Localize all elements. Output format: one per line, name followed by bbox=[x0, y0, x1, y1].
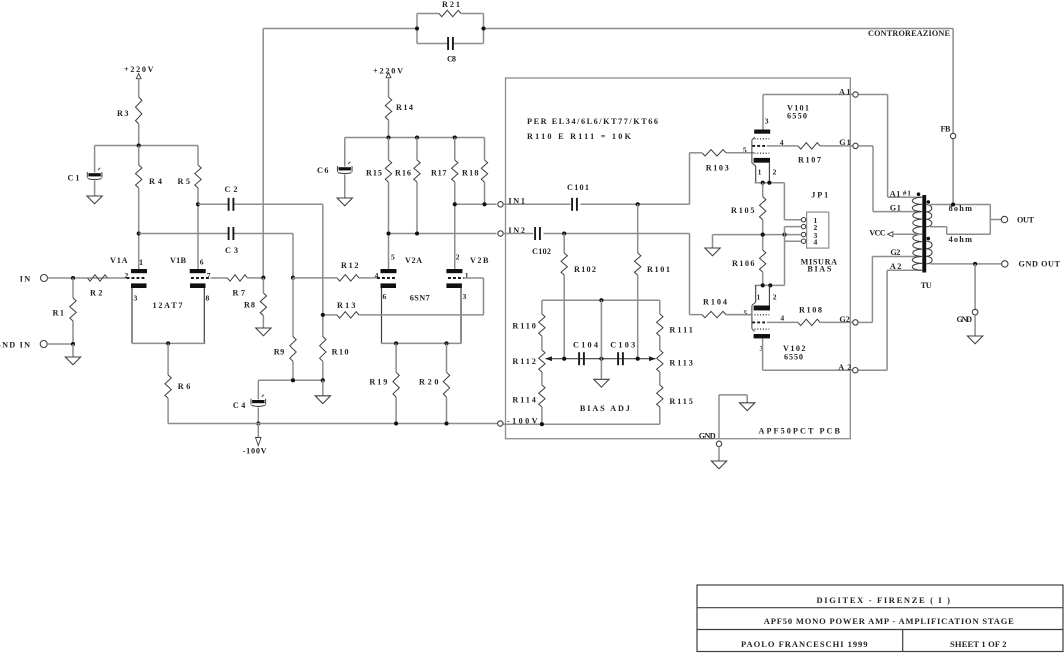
node R1 top junction bbox=[71, 276, 75, 280]
resistor R4 bbox=[138, 146, 140, 166]
PCB outline APF50PCT bbox=[506, 78, 851, 439]
resistor R8 bbox=[262, 278, 264, 293]
ground below GND OUT bbox=[967, 336, 982, 344]
terminal A1 bbox=[853, 92, 858, 97]
svg-text:6: 6 bbox=[200, 258, 204, 267]
wire IN2 inside to C102 bbox=[503, 233, 533, 235]
node IN2/R16 bbox=[415, 231, 419, 235]
capacitor C3 bbox=[228, 227, 230, 240]
node R5/C2 junction bbox=[196, 202, 200, 206]
svg-text:7: 7 bbox=[207, 271, 211, 280]
svg-text:GND: GND bbox=[957, 315, 973, 324]
node GND IN junction bbox=[71, 342, 75, 346]
node V101 cathode pin1 bbox=[761, 181, 765, 185]
JP1 pin 1 bbox=[801, 218, 805, 222]
svg-text:R6: R6 bbox=[178, 382, 191, 391]
node R4/C3 junction bbox=[137, 231, 141, 235]
wire C4 to -100V bus bbox=[257, 407, 259, 423]
terminal OUT bbox=[1001, 216, 1007, 222]
svg-text:GND: GND bbox=[699, 432, 716, 441]
svg-text:5: 5 bbox=[743, 309, 747, 318]
node IN1/R17 bbox=[453, 202, 457, 206]
svg-text:R1: R1 bbox=[53, 309, 65, 318]
svg-text:R5: R5 bbox=[178, 177, 191, 186]
resistor R104 bbox=[702, 311, 726, 317]
wire V1 cathode bracket bbox=[132, 342, 205, 344]
svg-text:4: 4 bbox=[375, 271, 379, 280]
terminal IN bbox=[41, 275, 48, 282]
wire JP1 pin1 to cathode bbox=[783, 183, 785, 220]
tube V101 suppressor grid bbox=[755, 152, 770, 154]
capacitor C103 bbox=[617, 352, 619, 365]
node R19 bottom bbox=[394, 421, 398, 425]
wire JP1 pin3 row bbox=[713, 234, 802, 236]
wire IN1 net bbox=[455, 203, 497, 205]
arrow into R113 bbox=[649, 356, 656, 361]
ground below GND IN bbox=[72, 344, 74, 357]
wire V101 grid to R107 bbox=[767, 145, 798, 147]
resistor R20 bbox=[446, 343, 448, 372]
svg-text:R106: R106 bbox=[732, 259, 755, 268]
svg-text:V2B: V2B bbox=[470, 256, 489, 265]
wire C102 to R104 corner bbox=[544, 233, 690, 235]
svg-text:R101: R101 bbox=[647, 265, 670, 274]
wire 6SN7 plate bus bbox=[345, 137, 485, 139]
wire GND to ground symbol bbox=[974, 315, 976, 336]
node IN1/R18 bbox=[482, 202, 486, 206]
terminal GND IN bbox=[40, 341, 47, 348]
phase mark secondary top bbox=[927, 200, 931, 204]
svg-text:2: 2 bbox=[773, 293, 777, 302]
resistor R6 bbox=[167, 343, 169, 375]
resistor R5 bbox=[197, 146, 199, 166]
svg-text:A1: A1 bbox=[839, 87, 851, 96]
node R101 top bbox=[636, 202, 640, 206]
svg-text:R16: R16 bbox=[395, 169, 411, 178]
resistor R101 bbox=[637, 204, 639, 253]
VCC arrow bbox=[888, 232, 893, 237]
svg-text:R20: R20 bbox=[419, 378, 439, 387]
node pin3/vertical junction bbox=[782, 233, 786, 237]
wire G2 to transformer bbox=[859, 321, 873, 323]
resistor R106 bbox=[762, 235, 764, 250]
svg-text:3: 3 bbox=[765, 117, 769, 126]
capacitor C102 bbox=[534, 227, 536, 240]
svg-text:C2: C2 bbox=[225, 185, 238, 194]
wire +220V node horizontal bbox=[95, 145, 198, 147]
capacitor C104 bbox=[578, 352, 580, 365]
svg-text:4: 4 bbox=[780, 314, 784, 323]
wire C2 output vertical bbox=[322, 204, 324, 315]
JP1 pin 2 bbox=[801, 224, 805, 228]
wire V101 suppressor to R103 bbox=[726, 152, 752, 154]
svg-text:V1B: V1B bbox=[170, 256, 187, 265]
resistor R2 bbox=[88, 275, 108, 281]
svg-text:R2: R2 bbox=[90, 289, 103, 298]
wire R6 to -100V bus bbox=[167, 398, 169, 423]
node V101 cathode pin2 bbox=[767, 181, 771, 185]
resistor R114 bbox=[541, 372, 543, 385]
svg-text:R12: R12 bbox=[341, 261, 359, 270]
wire GND OUT bbox=[930, 263, 1001, 265]
resistor R17 bbox=[454, 138, 456, 161]
wire V101 cathode tie bar bbox=[755, 182, 785, 184]
wire bus to C6 bbox=[344, 138, 346, 167]
node bus/R15 bbox=[386, 135, 390, 139]
trimmer R112 bbox=[539, 350, 545, 372]
svg-text:R111: R111 bbox=[669, 326, 693, 335]
wire bias centre vertical bbox=[600, 300, 602, 358]
terminal IN1 out bbox=[498, 202, 503, 207]
wire GND drop bbox=[974, 264, 976, 309]
svg-text:R13: R13 bbox=[337, 301, 356, 310]
wire R7 to feedback node bbox=[248, 277, 264, 279]
node R19 top bbox=[394, 341, 398, 345]
svg-text:R7: R7 bbox=[233, 289, 246, 298]
terminal GND mid bbox=[972, 309, 978, 315]
ground below wiper centre bbox=[600, 359, 602, 380]
svg-text:R4: R4 bbox=[149, 177, 162, 186]
svg-text:4: 4 bbox=[814, 237, 818, 246]
svg-text:3: 3 bbox=[463, 292, 467, 301]
svg-text:CONTROREAZIONE: CONTROREAZIONE bbox=[868, 29, 951, 38]
wire V102 cathode tie bar bbox=[755, 284, 785, 286]
wire ground bus under R9/R10 bbox=[258, 379, 323, 381]
wire to C1 bbox=[94, 146, 96, 173]
resistor R14 bbox=[385, 97, 391, 120]
ground below C1 bbox=[87, 196, 102, 204]
node R102 top bbox=[562, 231, 566, 235]
svg-text:R107: R107 bbox=[798, 156, 821, 165]
wire V102 plate to A2 bbox=[762, 338, 764, 370]
wire C101 to R103 corner bbox=[581, 203, 690, 205]
transformer secondary upper winding bbox=[926, 205, 931, 227]
svg-text:R112: R112 bbox=[512, 357, 536, 366]
svg-text:R108: R108 bbox=[799, 305, 822, 314]
svg-text:2: 2 bbox=[125, 271, 129, 280]
resistor R111 bbox=[659, 300, 661, 314]
wire V102 suppressor to R104 bbox=[726, 314, 752, 316]
JP1 pin 4 bbox=[801, 239, 805, 243]
wire IN2 net bbox=[389, 233, 497, 235]
capacitor C8 bbox=[417, 43, 448, 45]
wire -100V bus left section bbox=[168, 423, 500, 425]
node feedback tap bbox=[951, 202, 955, 206]
resistor R12 bbox=[337, 275, 359, 281]
svg-text:R9: R9 bbox=[274, 347, 285, 356]
svg-text:DIGITEX - FIRENZE ( I ): DIGITEX - FIRENZE ( I ) bbox=[817, 595, 951, 605]
svg-text:R3: R3 bbox=[117, 109, 129, 118]
svg-text:R103: R103 bbox=[706, 164, 729, 173]
svg-text:4ohm: 4ohm bbox=[949, 235, 972, 244]
wire R17 to V2B plate bbox=[454, 182, 456, 269]
svg-text:G1: G1 bbox=[839, 138, 851, 147]
wire V2 cathode bracket bbox=[382, 342, 462, 344]
node C4 bottom junction bbox=[256, 421, 260, 425]
node IN2/R15 bbox=[386, 231, 390, 235]
node R13 left junction bbox=[321, 313, 325, 317]
wire 4ohm tap stub bbox=[930, 226, 947, 228]
transformer secondary lower winding bbox=[926, 241, 932, 264]
terminal G1 bbox=[853, 143, 858, 148]
svg-text:R110: R110 bbox=[512, 321, 536, 330]
svg-text:BIAS ADJ: BIAS ADJ bbox=[580, 404, 630, 413]
svg-text:8ohm: 8ohm bbox=[949, 204, 972, 213]
node R9 bottom bbox=[291, 378, 295, 382]
tube V101 cathode bbox=[754, 158, 770, 163]
node pin3/R105 junction bbox=[761, 233, 765, 237]
svg-text:R113: R113 bbox=[669, 359, 693, 368]
wire A2 to transformer bbox=[859, 369, 888, 371]
node R3/R4 junction bbox=[137, 143, 141, 147]
node bus/R17 bbox=[453, 135, 457, 139]
svg-text:R14: R14 bbox=[396, 103, 413, 112]
node C3/R9 junction bbox=[291, 276, 295, 280]
power +220V terminal right bbox=[386, 73, 391, 78]
svg-text:GND OUT: GND OUT bbox=[1019, 260, 1061, 269]
wire feedback net top horizontal bbox=[263, 28, 417, 30]
wire feedback vertical left (to R7/R8 node) bbox=[262, 29, 264, 278]
svg-text:+220V: +220V bbox=[124, 65, 154, 74]
wire JP1 pin2 bbox=[785, 226, 802, 228]
wire trimmer wiper row bbox=[545, 358, 655, 360]
capacitor C101 bbox=[571, 198, 573, 211]
node R21 right junction bbox=[481, 26, 485, 30]
svg-text:V1A: V1A bbox=[110, 256, 128, 265]
tube V102 screen grid bbox=[755, 328, 770, 330]
svg-text:1: 1 bbox=[758, 168, 762, 177]
resistor R108 bbox=[798, 319, 820, 325]
svg-text:OUT: OUT bbox=[1017, 216, 1035, 225]
wire A1 to transformer bbox=[859, 94, 888, 96]
wire R5 to V1B plate bbox=[197, 188, 199, 269]
svg-text:R18: R18 bbox=[462, 169, 479, 178]
resistor R10 bbox=[322, 315, 324, 337]
svg-text:R114: R114 bbox=[512, 396, 536, 405]
tube V102 plate bbox=[754, 334, 770, 338]
wire GND to ground bbox=[718, 447, 720, 461]
svg-text:JP1: JP1 bbox=[811, 190, 828, 199]
svg-text:12AT7: 12AT7 bbox=[153, 301, 183, 310]
resistor R102 bbox=[563, 234, 565, 254]
node V102 cathode pin2 bbox=[768, 283, 772, 287]
svg-text:C6: C6 bbox=[317, 166, 329, 175]
svg-text:2: 2 bbox=[773, 168, 777, 177]
resistor R1 bbox=[72, 278, 74, 298]
terminal G2 bbox=[853, 320, 858, 325]
resistor R19 bbox=[395, 343, 397, 372]
power +220V terminal left bbox=[136, 74, 141, 79]
svg-text:GND IN: GND IN bbox=[0, 340, 30, 349]
svg-text:SHEET 1 OF 2: SHEET 1 OF 2 bbox=[950, 639, 1007, 649]
wire feedback vertical right to FB bbox=[952, 29, 954, 205]
resistor R110 bbox=[541, 300, 543, 314]
trimmer R113 bbox=[657, 350, 663, 372]
svg-text:PER EL34/6L6/KT77/KT66: PER EL34/6L6/KT77/KT66 bbox=[527, 117, 658, 126]
node GND OUT tap bbox=[973, 262, 977, 266]
wire bias network top bbox=[542, 299, 660, 301]
capacitor C6 bbox=[339, 167, 351, 170]
resistor R3 bbox=[136, 97, 142, 124]
svg-text:2: 2 bbox=[456, 253, 460, 262]
ground below PCB bbox=[711, 461, 726, 469]
node R6 junction bbox=[166, 341, 170, 345]
JP1 pin 3 bbox=[801, 232, 805, 236]
svg-text:G1: G1 bbox=[890, 203, 901, 212]
svg-text:A1: A1 bbox=[890, 190, 901, 199]
resistor R103 bbox=[702, 150, 726, 156]
wire V102 grid to R108 bbox=[767, 321, 798, 323]
resistor R107 bbox=[798, 143, 820, 149]
wire R18 to IN1 net bbox=[484, 182, 486, 204]
node R20 top bbox=[444, 341, 448, 345]
svg-text:R21: R21 bbox=[442, 0, 460, 9]
svg-text:FB: FB bbox=[941, 125, 952, 134]
svg-text:6550: 6550 bbox=[787, 112, 807, 121]
arrow into R112 bbox=[545, 356, 552, 361]
svg-text:BIAS: BIAS bbox=[807, 265, 831, 274]
wire C1 to ground bbox=[94, 181, 96, 196]
tube V102 control grid bbox=[752, 321, 767, 323]
svg-text:5: 5 bbox=[391, 253, 395, 262]
svg-text:R110 E R111 = 10K: R110 E R111 = 10K bbox=[527, 132, 632, 141]
wire output bracket bbox=[989, 205, 991, 235]
svg-text:1: 1 bbox=[139, 258, 143, 267]
svg-text:R104: R104 bbox=[703, 298, 727, 307]
resistor R9 bbox=[292, 278, 294, 337]
svg-text:APF50 MONO POWER AMP - AMPLIFI: APF50 MONO POWER AMP - AMPLIFICATION STA… bbox=[764, 616, 1014, 626]
svg-text:-100V: -100V bbox=[243, 447, 267, 456]
wire PCB ground net bbox=[718, 395, 720, 439]
resistor R13 and V2B grid bracket bbox=[323, 314, 337, 316]
node wiper centre ground bbox=[599, 357, 603, 361]
connector JP1 bbox=[807, 212, 829, 248]
wire IN2 dropper to R104 bbox=[689, 234, 691, 315]
resistor R18 bbox=[484, 138, 486, 161]
svg-text:R15: R15 bbox=[366, 169, 382, 178]
ground below R8 bbox=[262, 316, 264, 329]
node R21 left junction bbox=[415, 26, 419, 30]
title block frame bbox=[697, 585, 1063, 652]
phase mark secondary 4ohm bbox=[927, 237, 931, 241]
wire G1 to transformer bbox=[859, 145, 873, 147]
node wiper/R101 bbox=[636, 357, 640, 361]
svg-text:TU: TU bbox=[921, 281, 932, 290]
node bus/R16 bbox=[415, 135, 419, 139]
svg-text:1: 1 bbox=[757, 293, 761, 302]
resistor R15 bbox=[388, 138, 390, 161]
resistor R105 bbox=[762, 183, 764, 197]
svg-text:V2A: V2A bbox=[405, 256, 422, 265]
wire C2 horizontal bbox=[198, 203, 228, 205]
svg-text:A2: A2 bbox=[890, 262, 902, 271]
svg-text:R19: R19 bbox=[369, 378, 387, 387]
transformer TU core bbox=[922, 195, 926, 273]
wire R4 to V1A plate bbox=[138, 188, 140, 269]
resistor R7 bbox=[228, 275, 248, 281]
svg-text:C3: C3 bbox=[225, 246, 238, 255]
wire 8 ohm tap bbox=[930, 204, 990, 206]
node R114 bottom bbox=[540, 422, 544, 426]
terminal GND bottom bbox=[716, 441, 721, 446]
power -100V arrow below C4 bbox=[257, 424, 259, 438]
wire JP1 pins 2-4 vertical to V102 cathode bbox=[784, 227, 786, 286]
svg-text:VCC: VCC bbox=[869, 228, 886, 237]
wire -100V inside PCB bbox=[504, 423, 660, 425]
svg-text:APF50PCT PCB: APF50PCT PCB bbox=[759, 427, 841, 436]
tube V101 control grid bbox=[752, 145, 767, 147]
svg-text:R105: R105 bbox=[731, 206, 755, 215]
node R20 bottom bbox=[444, 421, 448, 425]
svg-text:PAOLO FRANCESCHI 1999: PAOLO FRANCESCHI 1999 bbox=[741, 639, 868, 649]
terminal FB bbox=[950, 133, 955, 138]
svg-text:C1: C1 bbox=[68, 174, 80, 183]
resistor R115 bbox=[659, 372, 661, 385]
wire ground bus to C4 bbox=[257, 380, 259, 399]
resistor R21 bbox=[417, 13, 439, 15]
wire JP1 pin4 bbox=[785, 240, 802, 242]
svg-text:G2: G2 bbox=[890, 248, 900, 257]
svg-text:R10: R10 bbox=[332, 347, 349, 356]
wire IN1 inside to C101 bbox=[503, 203, 570, 205]
ground inside PCB bbox=[746, 395, 748, 403]
wire GND IN to R1 bbox=[47, 343, 73, 345]
svg-text:8: 8 bbox=[206, 294, 210, 303]
svg-text:C4: C4 bbox=[233, 401, 246, 410]
wire C3 horizontal bbox=[139, 233, 228, 235]
terminal -100V left bbox=[498, 421, 503, 426]
svg-text:C101: C101 bbox=[567, 183, 589, 192]
svg-text:1: 1 bbox=[465, 271, 469, 280]
wire C6 to ground bbox=[344, 175, 346, 198]
svg-text:6SN7: 6SN7 bbox=[410, 294, 430, 303]
ground on pin3 row bbox=[712, 235, 714, 248]
svg-text:R17: R17 bbox=[431, 169, 447, 178]
node R7/R8/feedback junction bbox=[261, 276, 265, 280]
svg-text:G2: G2 bbox=[839, 315, 850, 324]
capacitor C4 bbox=[252, 400, 264, 403]
svg-text:3: 3 bbox=[134, 294, 138, 303]
svg-text:C102: C102 bbox=[532, 247, 551, 256]
terminal A2 bbox=[853, 368, 858, 373]
svg-text:C104: C104 bbox=[573, 341, 598, 350]
capacitor C2 bbox=[228, 198, 230, 211]
tube V101 screen grid bbox=[755, 138, 770, 140]
node wiper/R102 bbox=[562, 357, 566, 361]
tube V102 suppressor grid bbox=[755, 314, 770, 316]
wire V101 plate to A1 bbox=[762, 95, 764, 130]
transformer primary winding bbox=[912, 197, 922, 270]
svg-text:6: 6 bbox=[383, 292, 387, 301]
terminal IN2 out bbox=[498, 231, 503, 236]
node bias top centre bbox=[599, 298, 603, 302]
wire R15 to V2A plate bbox=[388, 182, 390, 269]
svg-text:C8: C8 bbox=[447, 55, 456, 64]
node V102 cathode pin1 bbox=[761, 283, 765, 287]
wire R16 to IN2 net bbox=[416, 182, 418, 234]
wire C3 output vertical bbox=[292, 234, 294, 278]
ground below C6 bbox=[337, 198, 352, 206]
svg-text:6550: 6550 bbox=[784, 353, 803, 362]
terminal GND OUT bbox=[1002, 261, 1008, 267]
capacitor C1 bbox=[88, 173, 100, 176]
svg-text:R102: R102 bbox=[574, 265, 596, 274]
wire IN to R2 bbox=[48, 277, 127, 279]
tube V102 cathode bar bbox=[754, 306, 770, 311]
ground below R10 bbox=[322, 380, 324, 396]
svg-text:R115: R115 bbox=[669, 397, 693, 406]
svg-text:#1: #1 bbox=[903, 190, 912, 198]
